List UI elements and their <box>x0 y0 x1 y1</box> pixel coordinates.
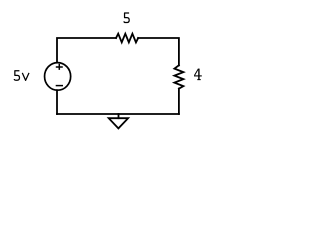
label 4 of resistor R2 <box>194 69 202 80</box>
voltage source minus sign <box>56 85 63 87</box>
voltage source V1 circle <box>45 63 71 91</box>
voltage source plus sign <box>56 64 63 70</box>
wire: resistor R1 to top-right corner, down to resistor R2 <box>138 38 179 65</box>
label 5 of resistor R1 <box>124 13 129 22</box>
wire: voltage source bottom to bottom-left corner <box>56 90 58 114</box>
label letter V of source value "5 V" <box>22 73 29 81</box>
wire: bottom horizontal <box>57 113 179 115</box>
wire: left vertical top + top horizontal to resistor R1 <box>57 38 116 62</box>
resistor R1 zigzag (top, value 5) <box>116 34 138 43</box>
ground triangle <box>109 118 128 128</box>
resistor R2 zigzag (right side, value 4) <box>174 65 183 88</box>
label digit 5 of source value "5 V" <box>14 71 19 80</box>
ground stem <box>118 114 120 118</box>
wire: resistor R2 to bottom-right corner <box>178 89 180 114</box>
